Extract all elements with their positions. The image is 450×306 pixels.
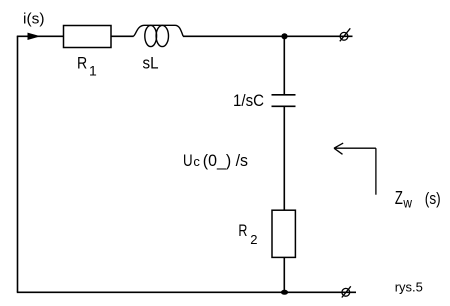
svg-text:sL: sL <box>143 54 159 73</box>
capacitor C (1/sC) <box>272 95 296 107</box>
label Uc(0_)/s <box>183 151 248 170</box>
label i(s) <box>23 11 45 28</box>
svg-text:1: 1 <box>89 62 97 78</box>
svg-text:(0_) /s: (0_) /s <box>203 151 248 170</box>
current arrow i(s) <box>28 33 41 40</box>
svg-text:w: w <box>403 195 413 211</box>
wire R2 bottom lead <box>283 257 285 292</box>
wire R1 to L <box>111 35 134 37</box>
junction node bottom <box>281 290 288 295</box>
svg-text:1/sC: 1/sC <box>233 91 264 110</box>
terminal top right <box>340 28 351 41</box>
wire L to top terminal <box>183 35 353 37</box>
impedance arrow Zw(s) <box>334 143 376 195</box>
junction node top <box>281 33 287 39</box>
label R1 <box>77 54 97 79</box>
wire left vertical <box>17 36 19 292</box>
label 1/sC <box>233 91 264 110</box>
resistor R1 <box>64 26 112 48</box>
svg-text:R: R <box>238 221 247 240</box>
wire capacitor top lead <box>283 36 285 95</box>
wire capacitor to R2 <box>283 106 285 210</box>
wire top-left segment <box>17 35 64 37</box>
wire bottom horizontal <box>17 291 356 293</box>
svg-text:U: U <box>183 151 193 170</box>
svg-text:c: c <box>193 154 200 169</box>
label rys.5 <box>395 279 423 294</box>
svg-text:i(s): i(s) <box>23 11 45 28</box>
svg-text:2: 2 <box>250 232 257 247</box>
terminal bottom right <box>342 286 351 297</box>
svg-text:R: R <box>77 54 87 73</box>
resistor R2 <box>272 210 295 257</box>
svg-text:Z: Z <box>395 188 403 208</box>
label R2 <box>238 221 257 247</box>
label sL <box>143 54 159 73</box>
svg-text:(s): (s) <box>425 189 441 208</box>
label Zw(s) <box>395 188 441 211</box>
svg-text:rys.5: rys.5 <box>395 279 423 294</box>
inductor L (sL) <box>133 25 183 46</box>
